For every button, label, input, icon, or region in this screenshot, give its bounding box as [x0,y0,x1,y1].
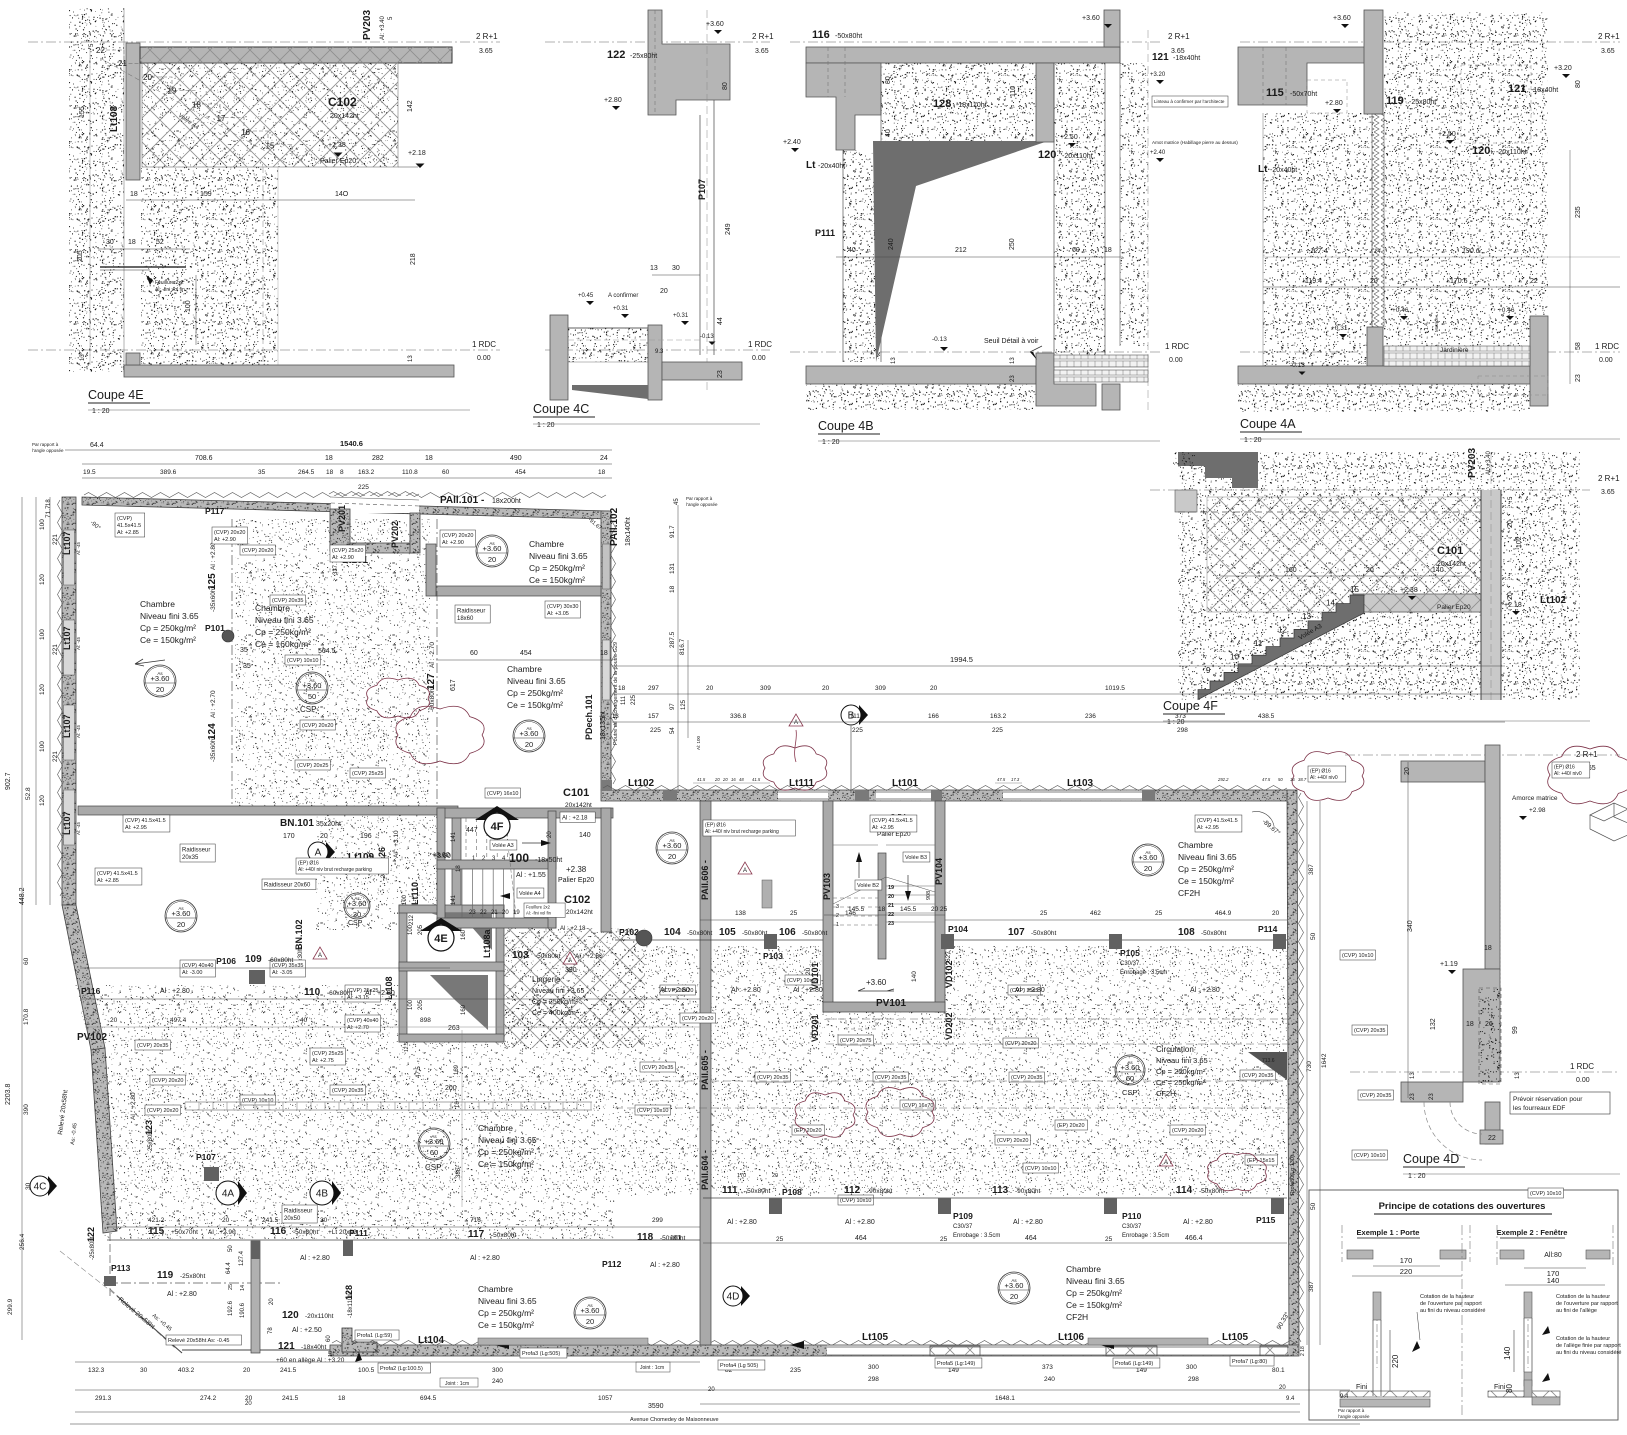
red A triangles [789,714,803,726]
svg-text:157: 157 [648,713,659,720]
stipple main slab right wing [615,946,1287,1196]
svg-text:Prévoir réservation pour: Prévoir réservation pour [1513,1096,1583,1103]
svg-text:VD101: VD101 [810,962,820,990]
svg-text:All:80: All:80 [1544,1252,1562,1259]
principe de cotations box [1309,1190,1621,1420]
svg-text:Al: +3.40: Al: +3.40 [380,15,386,40]
svg-text:+2.38: +2.38 [1400,587,1418,594]
svg-text:Al: -45: Al: -45 [76,724,81,738]
svg-text:+3.60: +3.60 [1082,15,1100,22]
svg-text:13: 13 [80,354,86,361]
beam 122 top mass [648,10,730,115]
svg-text:+0.31: +0.31 [673,313,689,319]
svg-text:448.2: 448.2 [19,887,26,905]
svg-text:200: 200 [445,1085,457,1092]
svg-text:Al: -3.05: Al: -3.05 [272,970,292,976]
dashed open line [568,339,700,341]
svg-text:20: 20 [1370,278,1378,285]
svg-text:(CVP) 20x35: (CVP) 20x35 [1354,1028,1386,1034]
svg-text:111: 111 [722,1185,738,1196]
svg-text:192.6: 192.6 [228,1300,234,1316]
svg-text:170.6: 170.6 [1450,278,1468,285]
svg-text:Niveau fini 3.65: Niveau fini 3.65 [1066,1276,1125,1286]
svg-text:P113: P113 [111,1263,131,1273]
svg-text:Ce = 150kg/m²: Ce = 150kg/m² [1066,1300,1122,1310]
svg-text:264.5: 264.5 [298,469,315,476]
svg-text:(CVP) 20x35: (CVP) 20x35 [875,1075,907,1081]
svg-text:105: 105 [719,927,736,938]
svg-text:18: 18 [130,191,138,198]
svg-text:1 : 20: 1 : 20 [92,408,110,415]
wall lower thick [1463,969,1500,1082]
svg-text:116: 116 [812,29,830,41]
svg-text:48: 48 [739,777,744,782]
wall top right wing [601,790,1290,801]
dark stair flight down-left [1198,595,1364,700]
svg-text:-60x80ht: -60x80ht [327,990,352,997]
svg-text:Cp = 250kg/m²: Cp = 250kg/m² [478,1147,534,1157]
svg-text:(CVP) 10x10: (CVP) 10x10 [1354,1153,1386,1159]
svg-text:132.3: 132.3 [88,1367,105,1374]
svg-text:-18x110ht: -18x110ht [956,102,987,109]
svg-text:25: 25 [228,1284,234,1290]
svg-text:18: 18 [328,1351,334,1357]
svg-text:282: 282 [372,455,384,462]
svg-text:(CVP) 10x10: (CVP) 10x10 [840,1198,872,1204]
4E marker up [420,918,462,931]
svg-text:30: 30 [672,265,680,272]
svg-text:CSP: CSP [1122,1088,1137,1097]
level line 1RDC [28,349,500,351]
threshold step [1036,353,1096,406]
svg-text:1 : 20: 1 : 20 [1244,437,1262,444]
svg-text:-20x110ht: -20x110ht [1496,149,1527,156]
svg-text:80.1: 80.1 [1272,1367,1285,1374]
svg-text:225: 225 [358,484,369,491]
svg-text:20: 20 [888,894,894,900]
boxed CVP right wing interior [870,815,917,832]
svg-text:107: 107 [1008,927,1025,938]
wall PAll.606/605/604 vertical [700,801,711,1345]
svg-text:-0.13: -0.13 [1290,362,1305,369]
svg-text:Lt107: Lt107 [62,811,72,835]
svg-text:+2.38: +2.38 [328,142,346,149]
svg-text:50: 50 [308,692,316,701]
svg-text:P105: P105 [1120,948,1140,958]
svg-text:225: 225 [852,727,863,734]
svg-text:336.8: 336.8 [730,713,747,720]
svg-text:19: 19 [168,87,177,96]
svg-text:20: 20 [110,1017,118,1024]
svg-text:(CVP) 20x20: (CVP) 20x20 [442,533,474,539]
svg-text:274.2: 274.2 [200,1395,217,1402]
svg-text:Jardinière: Jardinière [1440,347,1469,354]
svg-text:(CVP) 20x35: (CVP) 20x35 [1011,1075,1043,1081]
svg-text:(CVP) 25x25: (CVP) 25x25 [312,1051,344,1057]
palier band [1353,594,1481,612]
svg-text:2 R+1: 2 R+1 [1598,474,1620,483]
svg-text:Exemple 1 : Porte: Exemple 1 : Porte [1357,1228,1420,1237]
svg-text:23: 23 [1429,1093,1435,1100]
top right corner column [1104,10,1120,47]
svg-text:122: 122 [607,49,625,61]
center divider dashdot [1461,1225,1463,1415]
svg-text:(CVP) 25x25: (CVP) 25x25 [352,771,384,777]
svg-text:17.3: 17.3 [1011,777,1020,782]
wall west lower [91,1048,117,1233]
svg-text:64.4: 64.4 [90,442,104,449]
arrows on bottom wall [495,1341,509,1349]
svg-text:564.5: 564.5 [318,648,336,655]
svg-text:+3.60: +3.60 [866,978,887,987]
svg-text:16: 16 [241,128,250,137]
revision clouds [396,706,484,764]
svg-text:716: 716 [470,1217,481,1224]
svg-text:+3.60: +3.60 [706,21,724,28]
svg-text:52.8: 52.8 [25,787,32,800]
svg-text:Al: +2.85: Al: +2.85 [97,878,119,884]
svg-text:627: 627 [945,951,952,962]
svg-text:Par rapport à: Par rapport à [1338,1408,1365,1413]
svg-text:Ce = 150kg/m²: Ce = 150kg/m² [507,700,563,710]
svg-text:100: 100 [408,924,414,935]
svg-text:403.2: 403.2 [178,1367,195,1374]
svg-text:140: 140 [1547,1276,1560,1285]
svg-text:+0.45: +0.45 [578,293,594,299]
svg-text:Al: +2.75: Al: +2.75 [312,1058,334,1064]
left section diagram [1376,1292,1378,1368]
right wall strip [1481,490,1501,700]
svg-text:2 R+1: 2 R+1 [476,32,498,41]
svg-text:2 18: 2 18 [1300,1346,1306,1356]
svg-text:10: 10 [1230,653,1239,662]
svg-text:+3.60: +3.60 [483,544,502,553]
svg-text:Chambre: Chambre [1066,1264,1101,1274]
svg-text:Palier Ep20: Palier Ep20 [558,877,594,884]
bottom slab [1238,366,1530,384]
svg-text:-20x110ht: -20x110ht [1062,153,1093,160]
svg-text:438.5: 438.5 [1258,713,1275,720]
svg-text:4A: 4A [222,1189,235,1200]
svg-text:13: 13 [1410,1072,1416,1079]
left plan diagram [1341,1225,1343,1262]
svg-text:309: 309 [760,685,771,692]
stair C101/C102 block [437,808,613,818]
svg-text:P109: P109 [953,1211,973,1221]
svg-text:454: 454 [520,650,532,657]
dark wedges in cores [430,913,492,950]
svg-text:140: 140 [1503,1346,1512,1360]
svg-text:12.5: 12.5 [404,1042,410,1052]
svg-text:-50x80ht: -50x80ht [535,953,560,960]
wall Lt108 gray bar [126,43,140,180]
svg-text:100: 100 [509,851,529,865]
svg-text:P112: P112 [602,1259,622,1269]
svg-text:100: 100 [39,741,46,752]
svg-text:+0.31: +0.31 [1331,325,1348,332]
svg-text:11: 11 [1254,639,1263,648]
svg-text:Lt105: Lt105 [1222,1332,1249,1343]
svg-text:190.6: 190.6 [240,1302,246,1318]
svg-text:+2.40: +2.40 [783,139,801,146]
svg-text:106: 106 [779,927,796,938]
svg-text:121: 121 [1152,52,1169,63]
wall under top-right room [436,586,601,596]
svg-text:20: 20 [1144,864,1152,873]
svg-text:Al: +40/ niv0: Al: +40/ niv0 [1554,771,1582,777]
svg-text:(CVP) 20x35: (CVP) 20x35 [137,1043,169,1049]
svg-text:4F: 4F [491,821,504,833]
level line [1150,489,1590,491]
svg-text:Joint : 1cm: Joint : 1cm [445,1381,469,1387]
svg-text:Al : +2.18: Al : +2.18 [562,816,588,822]
svg-text:Chambre: Chambre [529,539,564,549]
right column [1530,316,1548,406]
svg-text:C101: C101 [1437,545,1463,557]
svg-text:497.4: 497.4 [170,1017,187,1024]
svg-text:390: 390 [23,1104,30,1115]
svg-text:+3.60: +3.60 [1139,853,1158,862]
svg-text:Al : +2.80: Al : +2.80 [727,1219,757,1226]
svg-text:Lt108a: Lt108a [482,928,492,958]
svg-text:2 R+1: 2 R+1 [1598,32,1620,41]
svg-text:299.9: 299.9 [7,1298,14,1315]
svg-text:+3.20: +3.20 [1554,65,1572,72]
svg-text:50: 50 [228,1245,234,1252]
svg-text:708.6: 708.6 [195,455,213,462]
svg-text:Fini: Fini [1494,1384,1506,1391]
stipple above wedge [881,63,1036,141]
svg-text:Profa3 (Lg:505): Profa3 (Lg:505) [522,1351,560,1357]
svg-text:PAll.604 -: PAll.604 - [700,1150,710,1190]
svg-text:18: 18 [192,100,201,109]
svg-text:Niveau fini 3.65: Niveau fini 3.65 [255,615,314,625]
svg-text:78: 78 [268,1327,274,1334]
svg-text:Niveau fini 3.65: Niveau fini 3.65 [478,1296,537,1306]
svg-text:163.2: 163.2 [990,713,1007,720]
top dark stair steps [1178,452,1258,488]
svg-text:16: 16 [1290,777,1295,782]
svg-text:P101: P101 [205,623,225,633]
svg-text:Chambre: Chambre [478,1284,513,1294]
svg-text:20: 20 [143,73,152,82]
svg-text:Lt107: Lt107 [62,531,72,555]
svg-text:Lt110: Lt110 [410,882,420,905]
svg-text:299: 299 [652,1217,663,1224]
svg-text:-90x80ht: -90x80ht [867,1188,892,1195]
gray floor strips above bottom wall [478,1338,648,1345]
svg-text:120: 120 [39,574,46,585]
svg-text:140: 140 [1432,567,1444,574]
svg-text:Niveau fini 3.65: Niveau fini 3.65 [1178,852,1237,862]
svg-text:115: 115 [148,1226,165,1237]
svg-text:Cp = 250kg/m²: Cp = 250kg/m² [532,999,579,1006]
svg-text:(EP) 20x20: (EP) 20x20 [794,1128,822,1134]
window segments east upper wall [603,544,611,589]
svg-text:Al: +40/ niv brut recharge par: Al: +40/ niv brut recharge parking [705,829,779,835]
svg-text:30: 30 [320,1217,328,1224]
svg-text:Ce = 150kg/m²: Ce = 150kg/m² [140,635,196,645]
svg-text:18x140ht: 18x140ht [625,517,632,546]
top slab [806,47,1120,63]
svg-text:Al: -fini vol fin: Al: -fini vol fin [526,910,552,915]
wall top (PAll.101) [82,497,609,519]
svg-text:100: 100 [408,999,414,1010]
svg-text:221: 221 [52,534,59,545]
svg-text:PV203: PV203 [1467,448,1478,478]
svg-text:1648.1: 1648.1 [995,1395,1015,1402]
svg-text:+2.38: +2.38 [566,865,587,874]
svg-text:190.6: 190.6 [1462,248,1480,255]
svg-text:12: 12 [1278,626,1287,635]
svg-text:60: 60 [326,1335,332,1342]
svg-text:Raidisseur 20x60: Raidisseur 20x60 [264,883,311,889]
svg-text:Cp = 250kg/m²: Cp = 250kg/m² [255,627,311,637]
svg-text:908: 908 [926,891,932,900]
svg-text:(CVP) 20x35: (CVP) 20x35 [1360,1093,1392,1099]
svg-text:Coupe 4B: Coupe 4B [818,419,874,433]
interior wall x251 [251,1241,260,1353]
svg-text:de l’ouverture par rapport: de l’ouverture par rapport [1420,1301,1482,1307]
svg-text:-50x80ht: -50x80ht [293,1229,318,1236]
svg-text:109: 109 [245,954,262,965]
svg-text:17: 17 [217,114,226,123]
svg-text:309: 309 [875,685,886,692]
svg-text:47.5: 47.5 [1262,777,1271,782]
svg-text:Al : +2.70: Al : +2.70 [210,690,217,718]
svg-text:113: 113 [992,1185,1009,1196]
svg-text:Al : +2.80: Al : +2.80 [1183,1219,1213,1226]
svg-text:464: 464 [855,1235,867,1242]
svg-text:A confirmer: A confirmer [608,293,638,299]
dark wedge [572,385,648,399]
svg-text:8: 8 [340,469,344,476]
section Coupe 4E [28,8,500,415]
bottom stipple band [568,328,648,362]
wall column stubs [663,790,677,801]
svg-text:PV104: PV104 [934,858,944,885]
svg-text:25: 25 [790,910,798,917]
svg-text:50: 50 [1310,932,1317,940]
svg-text:Seuil Détail à voir: Seuil Détail à voir [984,338,1039,345]
svg-text:20x142ht: 20x142ht [566,909,593,916]
svg-text:102: 102 [1516,536,1523,548]
svg-text:Ce = 150kg/m²: Ce = 150kg/m² [529,575,585,585]
top slab with crosshatch [140,47,452,63]
svg-text:-20x110ht: -20x110ht [305,1313,334,1320]
svg-text:25: 25 [776,1236,784,1243]
svg-text:l’angle opposée: l’angle opposée [32,448,64,453]
svg-text:-50x80ht: -50x80ht [660,1235,685,1242]
svg-text:386: 386 [456,1167,462,1178]
svg-text:20: 20 [1366,567,1374,574]
svg-text:Profa1 (Lg:59): Profa1 (Lg:59) [357,1333,392,1339]
svg-text:Al: +3.40: Al: +3.40 [1486,450,1492,475]
svg-text:241.5: 241.5 [280,1367,297,1374]
svg-text:-35x60ht: -35x60ht [210,587,217,612]
svg-text:256.4: 256.4 [19,1233,26,1250]
svg-text:18: 18 [455,1101,461,1108]
svg-text:20: 20 [269,1298,275,1305]
svg-text:(EP) Ø16: (EP) Ø16 [1554,765,1575,771]
svg-text:Fini: Fini [1356,1384,1368,1391]
svg-text:Palier Ep20: Palier Ep20 [1437,604,1471,611]
stipple center region below slab [141,167,278,365]
section Coupe 4C [533,10,774,429]
EP boxed notes [296,858,388,874]
svg-text:20x35: 20x35 [182,855,199,861]
svg-text:Cp = 250kg/m²: Cp = 250kg/m² [1066,1288,1122,1298]
svg-text:-18x40ht: -18x40ht [301,1344,326,1351]
svg-text:160: 160 [1285,567,1297,574]
svg-text:Lt103: Lt103 [1067,778,1094,789]
svg-text:(EP) Ø16: (EP) Ø16 [1310,769,1331,775]
svg-text:Profa5 (Lg:149): Profa5 (Lg:149) [937,1361,975,1367]
svg-text:389.6: 389.6 [160,469,177,476]
svg-text:20: 20 [586,1317,594,1326]
svg-text:22: 22 [1530,278,1538,285]
svg-text:Enrobage : 3.5cm: Enrobage : 3.5cm [1120,970,1167,976]
svg-text:4E: 4E [434,933,447,945]
svg-text:Coupe 4D: Coupe 4D [1403,1152,1459,1166]
svg-text:PV102: PV102 [77,1032,107,1043]
svg-text:22: 22 [1488,1135,1496,1142]
svg-text:+3.20: +3.20 [1150,72,1166,78]
svg-text:Volée A3: Volée A3 [492,843,514,849]
svg-text:138: 138 [735,910,746,917]
svg-text:115: 115 [1266,87,1284,99]
svg-text:les fourreaux EDF: les fourreaux EDF [1513,1105,1565,1112]
svg-text:Lt102: Lt102 [1540,595,1567,606]
svg-text:3.65: 3.65 [1601,48,1615,55]
svg-text:A: A [568,958,572,964]
svg-text:(CVP) 16x10: (CVP) 16x10 [487,791,519,797]
svg-text:142: 142 [407,100,414,112]
svg-text:1 RDC: 1 RDC [1165,342,1189,351]
svg-text:40: 40 [885,129,892,137]
svg-text:-25x80ht: -25x80ht [148,1129,154,1153]
svg-text:19.5: 19.5 [83,469,96,476]
svg-text:80: 80 [885,76,892,84]
svg-text:20: 20 [1010,1292,1018,1301]
svg-text:Enrobage : 3.5cm: Enrobage : 3.5cm [1122,1233,1169,1239]
svg-text:(CVP) 10x10: (CVP) 10x10 [1025,1166,1057,1172]
svg-text:Raidisseur: Raidisseur [457,609,485,615]
left stipple field [1263,113,1373,366]
top slab stepped [1238,47,1367,105]
svg-text:30: 30 [140,1367,148,1374]
3d axon sketch [1590,803,1627,841]
left stepped mass [806,63,881,150]
stipple reservation patch [1479,988,1501,1084]
svg-text:Al: +40/ niv0: Al: +40/ niv0 [1310,775,1338,781]
svg-text:20: 20 [222,1217,230,1224]
svg-text:25: 25 [1155,910,1163,917]
svg-text:22: 22 [480,910,487,916]
svg-text:80: 80 [722,82,729,90]
svg-text:Niveau fini 3.65: Niveau fini 3.65 [529,551,588,561]
BN wall vertical x455 [452,815,461,930]
svg-text:Chambre: Chambre [140,599,175,609]
svg-text:Al : +3.10: Al : +3.10 [393,830,400,858]
svg-text:18x60: 18x60 [457,616,474,622]
svg-text:CF2H: CF2H [1178,888,1200,898]
svg-text:(CVP) 20x20: (CVP) 20x20 [682,1016,714,1022]
svg-text:18x200ht: 18x200ht [492,498,521,505]
section markers [238,1181,247,1205]
svg-text:C102: C102 [564,894,590,906]
svg-text:40: 40 [848,247,856,254]
